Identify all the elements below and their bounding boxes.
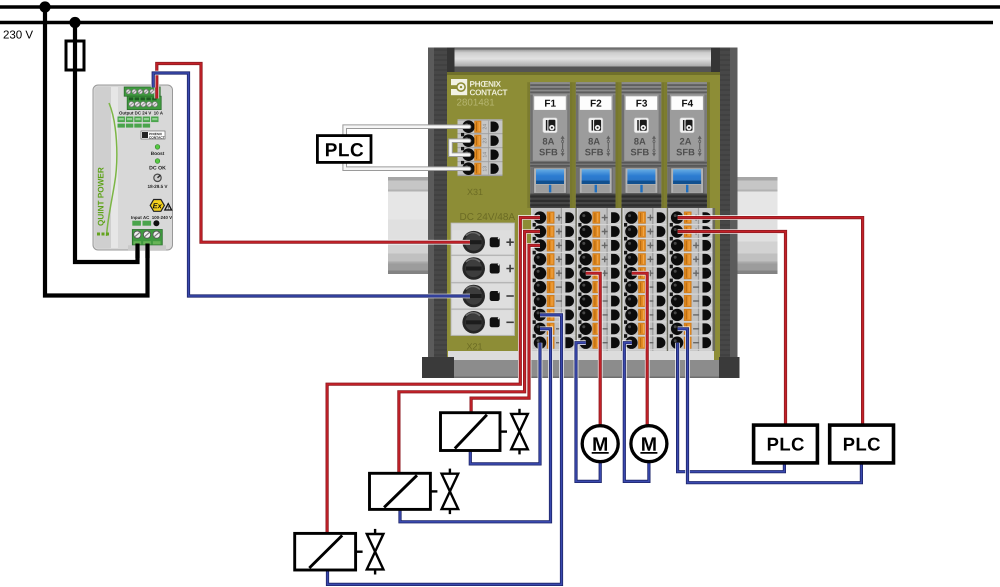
X21 terminal 3 (-) [451,282,515,284]
wire stub PSU input N (black) [145,244,149,259]
PSU trim knob 18-29.5 V [154,174,161,181]
wire F4 out 2 (red) to PLC 1 [678,232,786,427]
motor M1 [582,426,618,462]
PSU input terminal block [132,230,162,246]
X31 terminal 14 [458,161,503,163]
wire stub PSU input L (black) [135,244,139,259]
label X31 [467,189,482,195]
DIN rail left of module [388,177,428,181]
wire return motor M2 (blue) [624,343,649,482]
wire X31 pin13 to PLC (signal) [345,163,469,169]
wire return valve V2 (blue) [400,329,551,522]
PSU LED DC OK [155,159,160,164]
power supply QUINT POWER body [93,85,173,250]
X31 terminal 24 [458,133,503,135]
X21 terminal 4 (-) [451,308,515,310]
PSU Ex symbol [150,200,164,212]
terminal strip under F4 [668,208,715,351]
PLC box (left, control) [317,136,371,163]
wire F3 out (red) to motor M2 [632,273,647,425]
wire return motor M1 (blue) [576,343,600,482]
terminal block X31 [458,119,503,176]
wire F1 out 2 (red) to valve V2 [399,232,540,474]
motor M2 [631,426,667,462]
PSU label Input AC 100-240 V [131,216,172,220]
wire stub X21 + (red) [385,240,470,245]
valve V3 symbol [367,534,384,552]
label 2801481 [457,99,494,106]
circuit breaker F4 2A SFB [664,82,710,208]
PLC box 1 (right) [754,425,818,463]
PSU LED Boost [155,145,160,150]
wire jumper X31 pin23-pin14 [451,141,470,155]
wire AC bus line L2 [0,21,993,25]
wire stub X21 - (blue) [385,294,470,299]
circuit breaker F3 8A SFB [619,82,665,208]
wire PSU 0V output to X21 - (blue) [153,73,470,296]
PSU output terminal block [124,87,160,96]
label DC 24V/48A [460,213,515,220]
PSU Phoenix Contact mini logo [141,131,165,139]
wire return valve V1 (blue) [470,343,540,464]
PSU label Output DC 24 V 10 A [119,111,163,115]
wire F1 out 3 (red) to valve V1 [471,245,540,412]
wire stub PSU +24V (red over terminal) [155,83,160,99]
PLC box 2 (right) [830,425,894,463]
X21 terminal 1 (+) [453,230,512,254]
junction node on L2 [69,17,80,28]
wire F2 out (red) to motor M1 [586,273,600,425]
PSU warning triangle [165,204,172,210]
terminal strip under F2 [577,208,624,351]
fuse F in line L2 [66,41,84,70]
wire X31 pin24 to PLC (signal) [345,127,469,136]
wire L2 through fuse to PSU input L [75,23,138,263]
wire return valve V3 (blue) [328,315,562,585]
PSU label QUINT POWER (vertical) [98,167,105,225]
DIN rail right of module [738,177,778,181]
label 230 V [4,30,33,38]
solenoid valve V1 coil [441,413,501,451]
PSU green swoosh [107,103,117,236]
wire F4 out 1 (red) to PLC 2 [678,218,863,427]
wire return PLC 2 (blue) [678,329,862,483]
wire return PLC 1 (blue) [678,343,785,472]
wire L1 to PSU input N [45,7,148,296]
wire AC bus line L1 [0,5,1000,9]
terminal strip under F1 [531,208,578,351]
X31 terminal 23 [458,147,503,149]
circuit breaker F2 8A SFB [573,82,619,208]
X31 terminal 13 [458,175,503,177]
PSU green marking labels [118,117,125,123]
solenoid valve V3 coil [295,533,356,570]
module bottom foot [448,351,714,360]
Phoenix Contact logo on module [451,79,467,95]
breaker module 2801481 chassis [428,48,738,379]
circuit breaker F1 8A SFB [527,82,573,208]
label X21 [467,343,482,349]
terminal block X21 [451,223,515,336]
terminal strip under F3 [623,208,670,351]
wire stub PSU 0V (blue over terminal) [151,83,156,88]
junction node on L1 [39,1,50,12]
valve V1 symbol [511,414,528,432]
X21 terminal 2 (+) [451,254,515,256]
valve V2 symbol [442,474,459,492]
wire PSU +24V output to X21 + (red) [157,64,470,243]
solenoid valve V2 coil [370,473,431,509]
wire F1 out 1 (red) to valve V3 [327,218,540,534]
